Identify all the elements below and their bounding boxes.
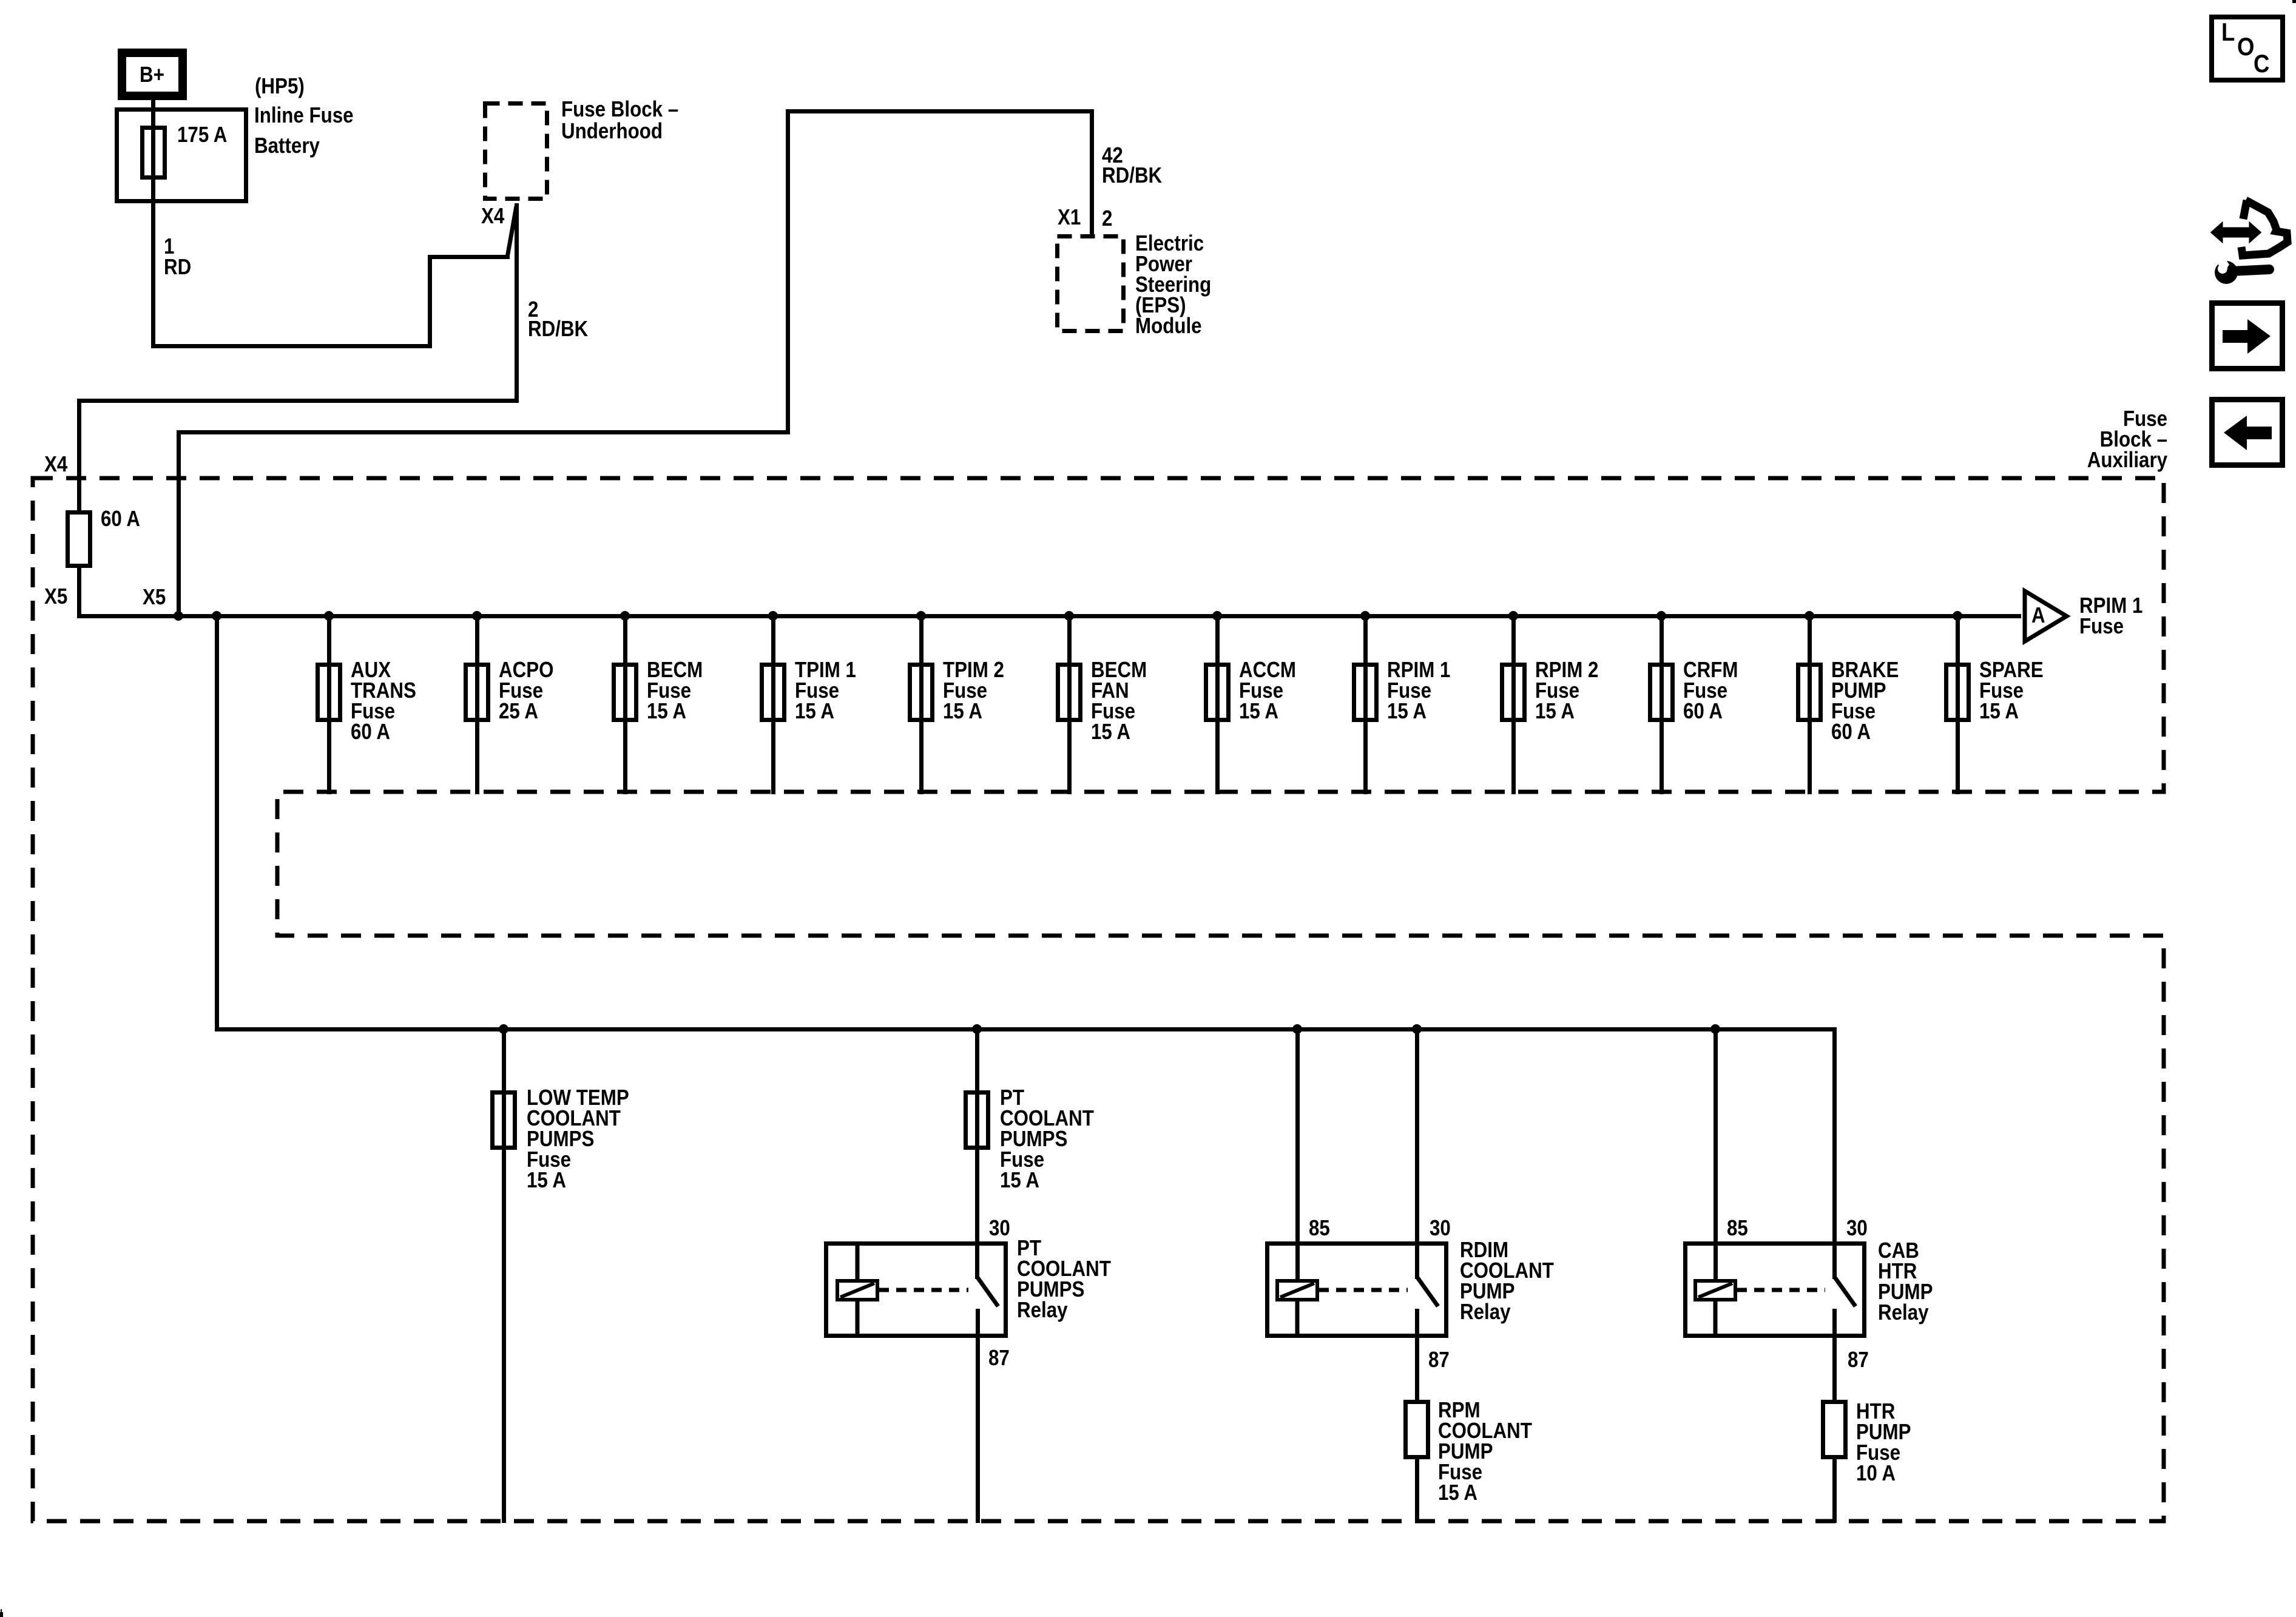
BRAKE PUMP fuse 60A element (1796, 663, 1823, 722)
label RDIM COOLANT PUMP relay label (1460, 1240, 1554, 1322)
wire X5 bus (77, 614, 2022, 618)
label LOW TEMP COOLANT PUMPS fuse label (527, 1087, 629, 1190)
wire 2 RD/BK drop (515, 203, 519, 403)
wire 60A fuse feed lower (77, 568, 81, 618)
wire relay 2 pin 87 wire (1415, 1309, 1419, 1400)
RPM COOLANT PUMP fuse element (1403, 1400, 1430, 1459)
back arrow box (2209, 397, 2285, 468)
BECM FAN fuse 15A element (1056, 663, 1082, 722)
wire 42 RD/BK riser (786, 109, 790, 434)
label SPARE fuse 15A label (1979, 660, 2044, 721)
label BECM FAN fuse 15A label (1091, 660, 1147, 742)
wire CRFM fuse 60A drop (1660, 618, 1664, 795)
wire drop to lower bus (215, 618, 219, 1031)
fuse 60A element (66, 510, 92, 568)
label HTR PUMP fuse label (1856, 1401, 1911, 1484)
label PT COOLANT PUMPS fuse label (1000, 1087, 1094, 1190)
label BRAKE PUMP fuse 60A label (1831, 660, 1899, 742)
wire lower bus (215, 1027, 1837, 1031)
wire 1 RD riser (428, 257, 432, 348)
battery / inline fuse box (115, 107, 248, 203)
label X4 connector of aux block (44, 454, 67, 474)
label EPS module name (1135, 233, 1211, 336)
label Inline Fuse (254, 105, 354, 126)
label relay 3 pin 85 (1727, 1218, 1748, 1238)
label RPIM 1 Fuse pointer label (2079, 595, 2142, 636)
label 60 A value (101, 508, 140, 529)
label X4 connector of underhood block (481, 206, 504, 226)
wire 42 RD/BK horizontal (786, 109, 1094, 113)
wire ACPO fuse 25A drop (475, 618, 479, 795)
CRFM fuse 60A element (1648, 663, 1675, 722)
SPARE fuse 15A element (1944, 663, 1971, 722)
wire LOW TEMP COOLANT PUMPS fuse drop (502, 1031, 506, 1524)
label PT COOLANT PUMPS relay label (1017, 1238, 1111, 1320)
wire relay 3 pin 87 wire (1832, 1309, 1837, 1400)
wire relay 3 pin 85 wire (1714, 1031, 1718, 1281)
wire SPARE fuse 15A drop (1956, 618, 1960, 795)
PT COOLANT PUMPS relay box (824, 1241, 1008, 1338)
wire RPM COOLANT PUMP fuse lower wire (1415, 1459, 1419, 1523)
wire PT COOLANT PUMPS fuse drop (975, 1031, 979, 1280)
label relay 2 pin 30 (1430, 1218, 1451, 1238)
wire BECM fuse 15A drop (623, 618, 627, 795)
label wire 2 (528, 299, 538, 320)
label (HP5) Inline Fuse Battery (255, 76, 305, 96)
wire B+ to battery (151, 100, 155, 348)
wire RPIM 1 fuse 15A drop (1363, 618, 1368, 795)
wire relay 1 pin 87 wire (976, 1309, 980, 1523)
TPIM 1 fuse 15A element (760, 663, 786, 722)
LOW TEMP COOLANT PUMPS fuse element (490, 1090, 517, 1150)
wire 1 RD horizontal (151, 344, 432, 348)
label wire 1 colour RD (164, 257, 191, 277)
RDIM COOLANT PUMP relay box (1265, 1241, 1448, 1338)
label relay 1 pin 87 (988, 1348, 1010, 1368)
label CAB HTR PUMP relay label (1878, 1240, 1933, 1323)
wire HTR PUMP fuse lower wire (1832, 1459, 1837, 1523)
wire RPIM 2 fuse 15A drop (1511, 618, 1516, 795)
wire 1 RD upper horizontal (428, 255, 510, 259)
label ACCM fuse 15A label (1239, 660, 1296, 721)
wire feed drop to X5 bus (177, 430, 181, 616)
label ACPO fuse 25A label (499, 660, 553, 721)
CAB HTR PUMP relay box (1683, 1241, 1866, 1338)
RPIM 2 fuse 15A element (1500, 663, 1527, 722)
ACPO fuse 25A element (464, 663, 490, 722)
wire BECM FAN fuse 15A drop (1067, 618, 1072, 795)
label RPIM 1 fuse 15A label (1387, 660, 1450, 721)
label TPIM 2 fuse 15A label (943, 660, 1004, 721)
wire feed to fuse block aux (177, 430, 790, 434)
label relay 2 pin 85 (1309, 1218, 1330, 1238)
page corner mark top right (2292, 0, 2296, 3)
RPIM 1 fuse 15A element (1352, 663, 1379, 722)
ACCM fuse 15A element (1204, 663, 1231, 722)
label circuit 42 colour RD/BK (1102, 165, 1162, 186)
wire 42 RD/BK to EPS (1090, 109, 1094, 237)
label BECM fuse 15A label (647, 660, 703, 721)
label relay 3 pin 30 (1846, 1218, 1868, 1238)
label EPS pin 2 (1102, 208, 1112, 229)
label Fuse Block - Auxiliary name (2087, 408, 2167, 470)
wire relay 3 pin 30 wire (1832, 1027, 1837, 1280)
label X1 connector of EPS (1058, 207, 1081, 228)
label RPIM 2 fuse 15A label (1535, 660, 1598, 721)
LOC legend box (2209, 15, 2285, 83)
wire 2 RD/BK horizontal (77, 399, 519, 403)
LOC letters (2221, 22, 2235, 42)
label RPM COOLANT PUMP fuse label (1438, 1400, 1532, 1503)
wire AUX TRANS fuse 60A drop (327, 618, 331, 795)
wire relay 2 pin 85 wire (1295, 1031, 1300, 1281)
label TPIM 1 fuse 15A label (795, 660, 856, 721)
BECM fuse 15A element (612, 663, 638, 722)
label 175 A value (177, 124, 227, 145)
HTR PUMP fuse element (1821, 1400, 1848, 1459)
page corner mark bottom left (0, 1612, 3, 1617)
label relay 2 pin 87 (1428, 1349, 1450, 1370)
label wire 1 (164, 236, 174, 257)
wire TPIM 1 fuse 15A drop (771, 618, 775, 795)
label Fuse Block - Underhood name (561, 99, 678, 120)
label relay 3 pin 87 (1848, 1349, 1869, 1370)
PT COOLANT PUMPS fuse element (964, 1090, 990, 1150)
fuse 175A element (140, 126, 167, 180)
forward arrow box (2209, 300, 2285, 371)
wire ACCM fuse 15A drop (1215, 618, 1220, 795)
label Battery (254, 135, 320, 156)
TPIM 2 fuse 15A element (908, 663, 934, 722)
label CRFM fuse 60A label (1683, 660, 1738, 721)
wire TPIM 2 fuse 15A drop (919, 618, 923, 795)
wire 60A fuse feed upper (77, 399, 81, 511)
battery B+ terminal box (118, 49, 187, 100)
label X5 connector left (44, 586, 67, 607)
label relay 1 pin 30 (989, 1218, 1010, 1238)
AUX TRANS fuse 60A element (316, 663, 342, 722)
label Underhood (561, 121, 663, 141)
label AUX TRANS fuse 60A label (351, 660, 416, 742)
wire BRAKE PUMP fuse 60A drop (1808, 618, 1812, 795)
label wire 2 colour RD/BK (528, 319, 588, 339)
wire relay 2 pin 30 wire (1415, 1031, 1419, 1280)
label X5 connector right (143, 587, 166, 607)
label circuit 42 (1102, 145, 1123, 166)
